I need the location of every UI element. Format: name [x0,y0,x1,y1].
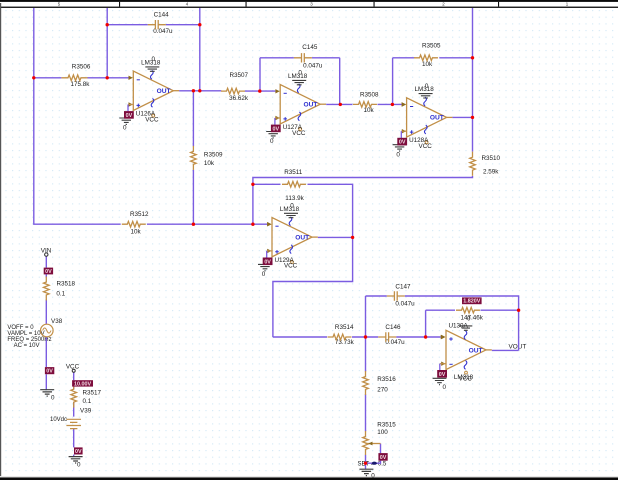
svg-text:V39: V39 [80,408,92,415]
svg-text:2.59k: 2.59k [483,168,499,175]
svg-text:R3505: R3505 [422,43,441,50]
svg-text:R3515: R3515 [377,421,396,428]
svg-text:C144: C144 [154,12,170,19]
svg-text:C146: C146 [385,324,401,331]
svg-text:R3508: R3508 [360,92,379,99]
svg-text:36.62k: 36.62k [229,95,249,102]
svg-text:0.1: 0.1 [83,398,92,405]
svg-text:C145: C145 [302,44,318,51]
svg-text:0.047u: 0.047u [153,28,173,35]
svg-text:R3510: R3510 [482,155,501,162]
svg-text:113.9k: 113.9k [285,195,304,202]
svg-text:R3518: R3518 [57,280,76,287]
svg-text:R3514: R3514 [335,324,354,331]
svg-text:0: 0 [51,394,55,401]
svg-text:0: 0 [443,384,447,391]
svg-text:1.820V: 1.820V [463,299,480,305]
svg-text:270: 270 [377,387,388,394]
svg-text:V38: V38 [51,318,63,325]
svg-text:0.1: 0.1 [56,291,65,298]
svg-text:U126A: U126A [136,110,156,117]
svg-text:U130A: U130A [449,323,469,330]
svg-text:0.047u: 0.047u [303,62,323,69]
svg-text:0.047u: 0.047u [395,301,415,308]
svg-text:147.46k: 147.46k [461,315,484,322]
svg-text:R3506: R3506 [72,64,91,71]
svg-text:OUT: OUT [469,348,483,355]
svg-text:C147: C147 [395,284,411,291]
svg-text:VCC: VCC [459,376,473,383]
svg-text:R3517: R3517 [83,390,102,397]
svg-text:0: 0 [371,473,375,480]
svg-text:0: 0 [467,315,471,322]
svg-text:10.00V: 10.00V [74,381,91,387]
svg-text:U127A: U127A [283,124,303,131]
svg-text:U129A: U129A [275,257,295,264]
svg-text:0V: 0V [75,449,82,455]
svg-text:0V: 0V [45,269,52,275]
svg-text:R3516: R3516 [377,376,396,383]
svg-text:0: 0 [77,461,81,468]
svg-text:R3509: R3509 [204,152,223,159]
svg-text:VOUT: VOUT [509,343,527,350]
svg-text:VAMPL = 10V: VAMPL = 10V [7,331,44,337]
svg-text:10k: 10k [204,160,215,167]
svg-text:100: 100 [377,429,388,436]
svg-text:10k: 10k [131,228,142,235]
svg-text:10Vdc: 10Vdc [50,417,67,423]
svg-text:AC = 10V: AC = 10V [14,343,40,349]
svg-text:10k: 10k [364,107,375,114]
svg-text:0V: 0V [380,455,387,461]
svg-text:0V: 0V [439,372,446,378]
svg-text:0V: 0V [46,369,53,375]
svg-text:R3507: R3507 [230,72,249,79]
svg-text:FREQ = 2500Hz: FREQ = 2500Hz [7,337,51,343]
svg-text:R3512: R3512 [130,211,149,218]
svg-text:R3511: R3511 [284,169,303,176]
svg-text:U128A: U128A [409,137,429,144]
svg-text:175.8k: 175.8k [71,81,91,88]
